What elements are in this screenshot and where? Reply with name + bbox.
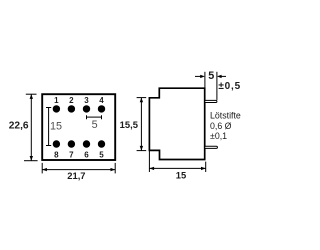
dimension 15 width witness lines — [149, 150, 205, 172]
svg-text:15,5: 15,5 — [120, 119, 138, 130]
svg-text:0,6 Ø: 0,6 Ø — [210, 121, 232, 131]
svg-text:3: 3 — [84, 96, 89, 105]
dimension 22,6 line — [24, 94, 38, 161]
svg-text:22,6: 22,6 — [9, 121, 29, 132]
dimension 15,5 arrowheads — [140, 98, 143, 151]
svg-text:±0,5: ±0,5 — [218, 81, 241, 92]
transformer top view outline — [42, 94, 115, 160]
svg-text:15: 15 — [50, 121, 62, 133]
svg-text:7: 7 — [69, 150, 74, 159]
pin 7 — [68, 140, 75, 147]
pin 2 — [68, 105, 75, 112]
transformer side view outline — [149, 88, 204, 159]
dimension 15 row pitch line — [46, 108, 51, 146]
svg-text:15: 15 — [176, 169, 186, 180]
dimension 15,5 line — [137, 98, 147, 151]
dimension 21,7 line — [42, 163, 115, 174]
svg-text:1: 1 — [54, 96, 59, 105]
pin 5 — [98, 140, 105, 147]
dimension 15 width arrowheads — [149, 167, 205, 170]
pin 4 — [98, 105, 105, 112]
dimension 5 pin length lines — [195, 72, 226, 100]
dimension 5 pin pitch line — [87, 115, 102, 119]
svg-text:5: 5 — [92, 119, 98, 131]
pin 6 — [83, 140, 90, 147]
svg-text:21,7: 21,7 — [67, 170, 85, 181]
upper solder pin — [205, 100, 217, 102]
svg-text:8: 8 — [54, 150, 59, 159]
svg-text:Lötstifte: Lötstifte — [210, 111, 241, 121]
svg-text:6: 6 — [84, 150, 89, 159]
svg-text:±0,1: ±0,1 — [210, 131, 227, 141]
svg-text:5: 5 — [99, 150, 104, 159]
svg-text:2: 2 — [69, 96, 74, 105]
dimension 22,6 arrowheads — [30, 94, 33, 161]
dimension 5 pin length arrowheads — [200, 75, 221, 78]
svg-text:5: 5 — [208, 70, 214, 82]
pin 3 — [83, 105, 90, 112]
pin 1 — [53, 105, 60, 112]
dimension 21,7 arrowheads — [42, 168, 115, 171]
pin 8 — [53, 140, 60, 147]
svg-text:4: 4 — [99, 96, 104, 105]
lower solder pin — [205, 146, 218, 148]
